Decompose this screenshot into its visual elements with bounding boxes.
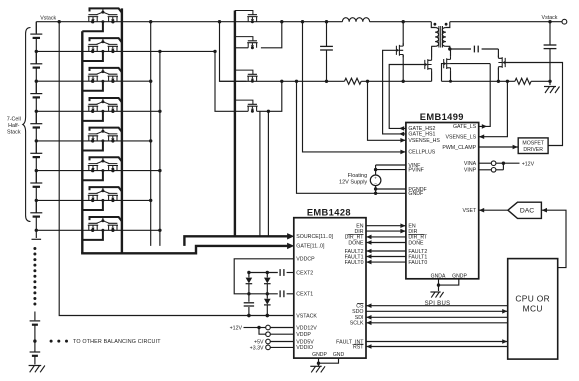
svg-text:−: − [374, 181, 377, 186]
svg-text:EMB1499: EMB1499 [420, 112, 464, 122]
dotted wire to other balancing circuit [50, 340, 53, 343]
junction row1 / CELLPLUS [301, 20, 304, 23]
wire SDI (U1-CPU) [366, 316, 508, 318]
wire Q15 body to GATE_LS riser [451, 63, 491, 65]
switch pair Q8 (back-to-back MOSFETs) [88, 223, 98, 230]
diode D3 [266, 294, 268, 299]
wire GATE_LS [479, 64, 491, 127]
floating 12V supply source [375, 165, 377, 175]
svg-text:PWM_CLAMP: PWM_CLAMP [442, 145, 476, 151]
svg-text:GNDP: GNDP [452, 273, 467, 279]
wire pair Q5 source step [82, 141, 103, 151]
wire matrix column A (odd rows) [150, 22, 152, 246]
svg-text:VDDCP: VDDCP [296, 257, 315, 263]
resistor R1 (primary sense) [345, 78, 362, 84]
transformer T1 phase dot primary [434, 23, 437, 26]
svg-text:VSENSE_LS: VSENSE_LS [446, 135, 477, 141]
svg-text:+12V: +12V [522, 161, 535, 167]
wire pair Q2 source step [82, 51, 103, 61]
wire PGNDF/GNDF return [297, 81, 406, 193]
wire switch Q12 gate hook [235, 100, 253, 104]
resistor R2 (secondary sense) [515, 78, 531, 84]
svg-text:Stack: Stack [7, 130, 21, 136]
svg-text:VSET: VSET [462, 208, 477, 214]
wire pair Q8 gate bus link [90, 217, 122, 221]
junctions VSTACK line [247, 314, 250, 317]
svg-text:VSTACK: VSTACK [296, 313, 317, 319]
junction Vstack [58, 20, 61, 23]
wire Q10 drain riser to row1 [261, 22, 282, 48]
wire Q16 gate to driver [505, 63, 562, 146]
svg-text:GNDA: GNDA [431, 273, 446, 279]
brace 7-cell half-stack [23, 28, 31, 222]
svg-text:7-Cell: 7-Cell [7, 117, 21, 123]
thick gate bus (left) [81, 31, 83, 253]
wire DIR_RT (U1-U2) [366, 236, 406, 238]
svg-text:GNDF: GNDF [408, 191, 423, 197]
transistor Q15 (sync FET) [444, 57, 451, 71]
wire VINF [376, 164, 406, 166]
wire pair Q5 gate bus link [90, 128, 122, 132]
wire row 7 [36, 199, 150, 201]
wire Q14 gate to GATE_HS2 [389, 65, 425, 129]
wire SCLK (U1-CPU) [366, 322, 508, 324]
transistor Q14 (primary FET) [425, 58, 432, 72]
svg-text:VDD12V: VDD12V [296, 325, 317, 331]
wire RST (U1-CPU) [366, 346, 508, 348]
wire Q16 source [497, 68, 499, 81]
wire pair Q1 gate bus link [90, 8, 122, 12]
wire Q10 source from column bus [235, 47, 248, 49]
wire SDO (U1-CPU) [366, 310, 508, 312]
svg-text:DAC: DAC [520, 208, 534, 215]
wire Q15 source [450, 71, 452, 82]
wire pair Q7 source step [82, 200, 103, 210]
thick source bus (right) [121, 8, 123, 253]
switch pair Q1 (back-to-back MOSFETs) [88, 15, 98, 22]
wire Q13 drain [402, 22, 404, 46]
transformer T1 core [438, 26, 440, 48]
svg-text:TO OTHER BALANCING CIRCUIT: TO OTHER BALANCING CIRCUIT [73, 339, 161, 345]
wire Q16 drain [497, 49, 499, 57]
junctions pair Q5 [91, 139, 94, 142]
svg-text:GNDP: GNDP [312, 352, 327, 358]
svg-text:FAULT0: FAULT0 [408, 260, 427, 266]
wire switch Q9 gate hook [235, 11, 253, 15]
battery cell B9 (bottom) [34, 341, 36, 352]
svg-text:VINA: VINA [464, 161, 477, 167]
ground (U1) [318, 363, 320, 366]
junctions pair Q4 [91, 110, 94, 113]
wire Vstack sense drop to VSTACK pin [59, 22, 294, 316]
wire Q15 gate stub [442, 64, 444, 82]
thick GATE[11..0] bundle [81, 246, 288, 253]
wire DIR (U1-U2) [366, 230, 406, 232]
wire row 2 [36, 50, 215, 52]
junction row1 / filter cap [325, 20, 328, 23]
capacitor C6 (pump reservoir) [248, 294, 250, 302]
arrow GATE_HS1 out [399, 132, 404, 137]
svg-text:Floating: Floating [348, 173, 368, 179]
svg-text:GND: GND [333, 352, 345, 358]
switch pair Q2 (back-to-back MOSFETs) [88, 44, 98, 51]
svg-text:SOURCE[11..0]: SOURCE[11..0] [296, 234, 333, 240]
battery cell B4 [30, 123, 42, 125]
svg-text:EMB1428: EMB1428 [307, 208, 351, 218]
svg-text:FAULT0: FAULT0 [345, 260, 364, 266]
block CPU OR MCU [508, 259, 558, 360]
battery cell B3 [30, 93, 42, 95]
overline CS (U1) [357, 302, 363, 304]
diode D2 [266, 273, 268, 278]
block DAC [508, 202, 542, 218]
switch Q9 [247, 15, 257, 22]
transformer T1 primary winding [431, 22, 435, 28]
svg-text:+3.3V: +3.3V [250, 346, 264, 352]
junction PGNDF tap [295, 80, 298, 83]
svg-text:GATE_HS1: GATE_HS1 [408, 132, 435, 138]
junctions pair Q7 [91, 199, 94, 202]
thick column bus [234, 11, 236, 237]
wire pair Q3 source step [82, 81, 103, 91]
junctions pair Q2 [91, 50, 94, 53]
switch pair Q7 (back-to-back MOSFETs) [88, 193, 98, 200]
inductor L1 [342, 18, 369, 22]
svg-text:VSENSE_HS: VSENSE_HS [408, 138, 440, 144]
wire CELLPLUS [303, 22, 406, 152]
IC U2 EMB1499 [406, 123, 479, 279]
block MOSFET DRIVER [518, 138, 548, 154]
wire CEXT2 [287, 272, 294, 274]
wire Q11 source from row1 tap [220, 22, 247, 82]
svg-text:+12V: +12V [230, 326, 243, 332]
overline RST (U1) [354, 343, 363, 345]
svg-text:DRIVER: DRIVER [523, 147, 543, 153]
junction dots battery taps [35, 50, 38, 53]
switch pair Q4 (back-to-back MOSFETs) [88, 104, 98, 111]
arrow GATE_HS2 out [399, 126, 404, 131]
wire CEXT1 [287, 293, 294, 295]
wire pair Q6 source step [82, 171, 103, 181]
capacitor C3 (output) [549, 22, 551, 45]
svg-text:GATE_LS: GATE_LS [453, 124, 477, 130]
battery cell B2 [30, 63, 42, 65]
svg-text:DONE: DONE [348, 240, 364, 246]
wire pair Q2 gate bus link [90, 38, 122, 42]
wire Q12 drain riser to sense row [257, 81, 282, 111]
capacitor C5 (CEXT1) [279, 290, 281, 297]
switch Q11 [247, 74, 257, 81]
svg-text:MCU: MCU [523, 304, 543, 314]
wire Q13 source [402, 55, 404, 81]
wire secondary node [450, 48, 471, 50]
junctions pair Q1 [91, 20, 94, 23]
wire PWM_CLAMP to driver [479, 146, 519, 148]
overline DIR_RT (U2) [408, 234, 424, 236]
svg-text:CPU OR: CPU OR [515, 294, 550, 304]
IC U1 EMB1428 [294, 218, 366, 358]
switch pair Q6 (back-to-back MOSFETs) [88, 164, 98, 171]
switch Q10 [247, 41, 257, 48]
wire PVINF [376, 169, 406, 171]
junction secondary winding node [448, 47, 451, 50]
wire Q13 gate to GATE_HS1 [383, 50, 406, 134]
diode D1 [248, 273, 250, 278]
capacitor C2 (series) [473, 46, 475, 53]
svg-text:DONE: DONE [408, 240, 424, 246]
wire GNDA ground [438, 279, 440, 291]
battery cell B1 [30, 33, 42, 35]
svg-text:+: + [374, 176, 377, 181]
wire row 6 [36, 170, 160, 172]
junction to other balancing circuit [33, 339, 36, 342]
wire row 3 [36, 80, 150, 82]
wire VINA [479, 162, 492, 164]
wire row 8 [36, 229, 160, 231]
secondary sense row [442, 80, 515, 82]
wire pair Q8 source step [82, 230, 103, 240]
junction VSENSE_HS tap [366, 80, 369, 83]
svg-text:PVINF: PVINF [408, 167, 423, 173]
wire FAULT_INT (U1-CPU) [366, 341, 508, 343]
wire matrix column B (even rows) [159, 51, 161, 246]
switch Q12 [247, 104, 257, 111]
wire pair Q1 source step [82, 22, 103, 32]
transformer T1 phase dot secondary [445, 23, 448, 26]
transistor Q13 (primary FET) [396, 43, 403, 57]
svg-text:GATE[11..0]: GATE[11..0] [296, 244, 325, 250]
svg-text:VDDP: VDDP [296, 332, 311, 338]
svg-text:RST: RST [353, 344, 364, 350]
battery cell B7 [30, 212, 42, 214]
wire pair Q7 gate bus link [90, 187, 122, 191]
wire pair Q4 source step [82, 111, 103, 121]
svg-text:VINP: VINP [464, 168, 477, 174]
svg-text:CELLPLUS: CELLPLUS [408, 150, 435, 156]
wire FAULT0 (U1-U2) [366, 261, 406, 263]
svg-text:SCLK: SCLK [350, 321, 364, 327]
sense row (primary return) [220, 80, 345, 82]
capacitor C4 (CEXT2) [279, 269, 281, 276]
svg-text:MOSFET: MOSFET [522, 141, 544, 147]
battery cell B8 (lower) [34, 312, 36, 321]
svg-text:Half-: Half- [8, 123, 20, 129]
thick SOURCE[11..0] bundle [184, 236, 288, 246]
wire VDDP supply [259, 328, 266, 335]
wire stack below row 8 [35, 230, 37, 238]
ground (secondary) [544, 86, 556, 88]
wire pair Q4 gate bus link [90, 98, 122, 102]
battery cell B5 [30, 152, 42, 154]
wire Q12 drain drop A [259, 111, 261, 236]
wire pair Q6 gate bus link [90, 157, 122, 161]
wire VSENSE_HS [368, 81, 406, 140]
wire VSET from DAC [479, 209, 508, 211]
wire Q14 drain to winding [431, 46, 433, 57]
wire Q14 source [431, 72, 433, 82]
wire row 4 [36, 110, 160, 112]
wire VINP [479, 169, 492, 171]
wire FAULT2 (U1-U2) [366, 250, 406, 252]
wire GNDP/GND to ground [318, 358, 320, 363]
junction output cap [548, 20, 551, 23]
svg-text:12V Supply: 12V Supply [339, 179, 367, 185]
wire switch Q11 gate hook [235, 70, 253, 74]
svg-text:CEXT2: CEXT2 [296, 270, 313, 276]
wire VDDCP loop [234, 259, 294, 294]
wire Q15 drain [450, 49, 452, 57]
junctions pair Q6 [91, 169, 94, 172]
wire switch Q10 gate hook [235, 37, 253, 41]
svg-text:Vstack: Vstack [40, 16, 56, 22]
junctions pair Q3 [91, 80, 94, 83]
terminal Vstack [562, 19, 567, 24]
overline DIR_RT (U1) [348, 234, 364, 236]
transistor Q16 (sync FET) [498, 56, 505, 70]
wire row 1 (Vstack rail) [36, 21, 342, 23]
ground (U2 GNDA) [430, 291, 440, 293]
wire DONE (U1-U2) [366, 242, 406, 244]
wire PGNDF [376, 188, 406, 190]
wire VSENSE_LS [479, 81, 508, 136]
wire Q12 drain drop B [267, 111, 269, 236]
junctions charge pump [247, 271, 250, 274]
wire pair Q3 gate bus link [90, 68, 122, 72]
capacitor C1 (input filter) [326, 22, 328, 46]
wire CS (U1-CPU) [366, 305, 508, 307]
transformer T1 secondary winding [446, 22, 450, 28]
wire row 5 [36, 140, 150, 142]
svg-text:CEXT1: CEXT1 [296, 292, 313, 298]
svg-text:VDDIO: VDDIO [296, 345, 313, 351]
battery cell B6 [30, 182, 42, 184]
ground (stack bottom) [29, 365, 42, 367]
junction row1 / Q13 drain [402, 20, 405, 23]
wire EN (U1-U2) [366, 225, 406, 227]
switch pair Q5 (back-to-back MOSFETs) [88, 134, 98, 141]
wire DAC input from CPU [541, 210, 566, 267]
switch pair Q3 (back-to-back MOSFETs) [88, 74, 98, 81]
junctions pair Q8 [91, 229, 94, 232]
wire Vstack top rail corner [35, 22, 37, 33]
junction VSENSE_LS tap [506, 80, 509, 83]
junction output node [548, 80, 551, 83]
dotted stack continuation [33, 247, 36, 250]
junctions on matrix columns [149, 20, 152, 23]
wire FAULT1 (U1-U2) [366, 256, 406, 258]
wire Q12 feed from row2 tap [215, 51, 248, 111]
